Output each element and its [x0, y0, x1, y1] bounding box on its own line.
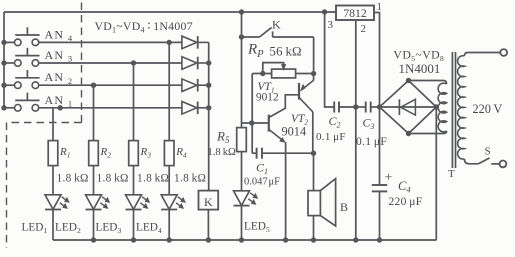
transformer primary winding	[458, 56, 465, 159]
wire pin3 to C2	[325, 12, 335, 107]
transistor VT2	[242, 115, 286, 143]
svg-text:1.8 kΩ: 1.8 kΩ	[174, 173, 206, 185]
capacitor C2	[334, 102, 356, 113]
pushbutton AN2	[1, 70, 39, 88]
label R4	[175, 146, 187, 160]
capacitor C1	[252, 123, 316, 159]
label R4 value 1.8k	[174, 173, 206, 185]
transformer secondary winding	[438, 83, 447, 132]
resistor R1	[48, 141, 58, 166]
diode VD2	[182, 79, 209, 92]
wire +12V rail to R5 / VT2 base node	[239, 9, 244, 127]
node pin3 top rail	[322, 9, 327, 14]
label VD1~VD4 1N4007	[95, 19, 193, 34]
wire VT2 emitter to rail	[285, 142, 287, 240]
label LED4	[136, 222, 162, 236]
wire down to R1	[52, 108, 54, 141]
wire primary bottom to switch S	[464, 159, 478, 164]
svg-text:K: K	[272, 18, 281, 32]
wire bridge AC top to secondary	[409, 81, 447, 85]
label C3	[363, 116, 375, 132]
wire left rail	[3, 12, 5, 108]
label S	[485, 146, 491, 158]
diode VD3	[182, 57, 209, 70]
label R1	[59, 146, 70, 160]
wire button AN1 to diode VD1	[39, 105, 182, 110]
wire K coil to rail	[207, 210, 209, 240]
speaker B	[308, 153, 336, 240]
switch K contact	[242, 27, 314, 37]
wire RP left to VT2 base node	[251, 74, 253, 124]
svg-text:K: K	[204, 195, 213, 209]
wire LED3 to ground rail	[133, 210, 135, 241]
LED3	[126, 195, 150, 210]
wire button AN2 to diode VD2	[39, 83, 182, 88]
label AN2	[45, 70, 74, 86]
wire diode cathode bus	[206, 42, 211, 190]
svg-text:0.1 μF: 0.1 μF	[316, 131, 346, 143]
diode VD4	[182, 36, 209, 49]
LED2	[86, 195, 110, 210]
wire R3 to LED3	[133, 166, 135, 195]
label R2 value 1.8k	[97, 173, 129, 185]
wire R4 to LED4	[168, 166, 170, 195]
svg-text:1.8 kΩ: 1.8 kΩ	[137, 173, 169, 185]
wire LED1 to ground rail	[52, 210, 54, 241]
capacitor C4	[372, 107, 387, 240]
diode VD1	[182, 102, 209, 115]
svg-text:+: +	[385, 171, 393, 186]
potentiometer RP	[252, 63, 313, 78]
wire pin1 to bridge DC+	[374, 13, 380, 108]
svg-text:7812: 7812	[343, 6, 367, 20]
resistor R3	[129, 141, 139, 166]
label B	[340, 200, 348, 214]
wire K to VT1 emitter	[311, 37, 316, 80]
svg-text:1.8 kΩ: 1.8 kΩ	[208, 147, 236, 158]
wire LED2 to ground rail	[93, 210, 95, 241]
label R5 value	[208, 147, 236, 158]
wire +12V top rail	[4, 11, 336, 13]
label LED1	[22, 222, 48, 236]
wire down to R2	[93, 85, 95, 140]
svg-text:S: S	[485, 146, 491, 158]
label C1 value	[244, 176, 280, 187]
label pin 2	[361, 23, 367, 35]
relay coil K box	[199, 191, 219, 210]
label AN3	[45, 48, 74, 64]
transformer core	[452, 52, 455, 168]
label VT2 type 9014	[282, 125, 307, 139]
wire R2 to LED2	[93, 166, 95, 195]
svg-text:0.047 μF: 0.047 μF	[244, 176, 280, 187]
LED4	[161, 195, 185, 210]
resistor R4	[164, 141, 174, 166]
label VD5~VD8	[393, 48, 444, 64]
svg-text:3: 3	[328, 19, 334, 31]
svg-text:T: T	[448, 168, 455, 180]
switch S	[478, 158, 499, 164]
wire LED4 to ground rail	[168, 210, 170, 241]
dashed boundary (button panel)	[7, 3, 82, 249]
label C4 plus	[385, 171, 393, 186]
pushbutton AN1	[1, 93, 39, 112]
wire primary top to terminal	[464, 53, 500, 56]
wire VT1 base to VT2 collector	[269, 95, 299, 117]
label VT2	[291, 113, 308, 127]
svg-text:9012: 9012	[256, 91, 279, 103]
wire down to R3	[133, 63, 135, 141]
label C1	[256, 160, 268, 176]
label C3 value	[356, 136, 387, 148]
label R1 value 1.8k	[57, 173, 89, 185]
label AN1	[45, 93, 74, 109]
wire bridge AC bottom to secondary	[409, 131, 447, 134]
svg-text:0.1 μF: 0.1 μF	[356, 136, 387, 148]
LED1	[45, 195, 69, 210]
wire LED5 to rail	[241, 206, 243, 240]
label C4 value	[389, 196, 423, 208]
label R2	[100, 146, 112, 160]
label pin 3	[328, 19, 334, 31]
svg-text:B: B	[340, 200, 348, 214]
bridge rectifier VD5~VD8	[377, 78, 439, 136]
label VT1 type 9012	[256, 91, 279, 103]
LED5	[234, 191, 258, 206]
label VT1	[258, 81, 275, 95]
svg-text:9014: 9014	[282, 125, 307, 139]
svg-text:1: 1	[377, 1, 383, 13]
svg-text:220 μF: 220 μF	[389, 196, 423, 208]
label LED5	[244, 221, 270, 235]
svg-text:1.8 kΩ: 1.8 kΩ	[57, 173, 89, 185]
wire R5 to LED5	[241, 152, 243, 191]
label R3	[140, 146, 152, 160]
label R3 value 1.8k	[137, 173, 169, 185]
svg-text:2: 2	[361, 23, 367, 35]
wire button AN3 to diode VD3	[39, 60, 182, 65]
label 1N4001	[399, 61, 441, 76]
label C2 value	[316, 131, 346, 143]
wire bridge DC- to ground rail	[435, 107, 437, 240]
pushbutton AN3	[1, 48, 39, 67]
label pin 1	[377, 1, 383, 13]
wire pin2 to ground rail	[353, 20, 358, 240]
label RP	[247, 42, 264, 60]
capacitor C3	[356, 102, 380, 113]
transistor VT1	[299, 80, 314, 153]
svg-text:220 V: 220 V	[473, 102, 503, 116]
label C2	[329, 114, 341, 130]
label 220V	[473, 102, 503, 116]
pushbutton AN4	[1, 27, 39, 46]
label R5	[216, 129, 230, 146]
label C4	[398, 179, 411, 195]
resistor R2	[89, 141, 99, 166]
label LED2	[55, 222, 81, 236]
svg-text:56 kΩ: 56 kΩ	[270, 45, 302, 59]
label AN4	[45, 27, 74, 43]
svg-text:1.8 kΩ: 1.8 kΩ	[97, 173, 129, 185]
wire down to R4	[168, 42, 170, 140]
label T	[448, 168, 455, 180]
svg-text:1N4001: 1N4001	[399, 61, 441, 76]
wire button AN4 to diode VD4	[39, 40, 182, 45]
regulator IC 7812	[336, 6, 374, 21]
wire ground bottom rail	[53, 237, 437, 242]
terminal top	[500, 49, 507, 56]
label LED3	[96, 222, 122, 236]
label RP value 56k	[270, 45, 302, 59]
resistor R5	[237, 128, 247, 152]
label K switch	[272, 18, 281, 32]
terminal bottom	[500, 161, 507, 168]
wire R1 to LED1	[52, 166, 54, 195]
